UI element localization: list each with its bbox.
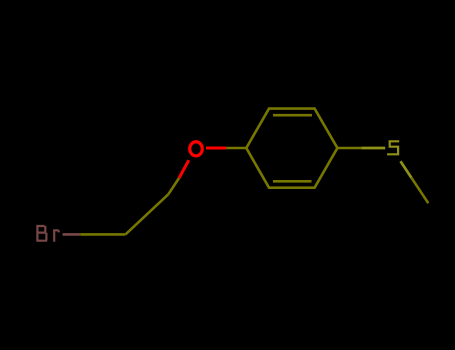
bond O to C3, oxygen half (red) xyxy=(179,160,189,178)
bond S to methyl, sulfur half (bright) xyxy=(401,161,412,178)
bond ring to S, sulfur half (bright) xyxy=(361,147,385,150)
aromatic inner line top xyxy=(273,114,312,117)
bond C1 to Br, carbon half xyxy=(80,233,125,236)
bond S to methyl, carbon half xyxy=(411,178,428,204)
atom Br letter B xyxy=(36,225,47,242)
bond C3 to C1 xyxy=(126,194,169,234)
atom S (sulfur) xyxy=(387,141,399,154)
bond O to ring, oxygen half (red) xyxy=(206,147,226,150)
benzene ring xyxy=(246,109,337,188)
bond O to C3, carbon half xyxy=(168,178,179,194)
atom O (oxygen) xyxy=(190,142,203,156)
bond O to ring, carbon half xyxy=(226,147,246,150)
atom Br letter r xyxy=(53,229,59,241)
bond ring to S, carbon half xyxy=(337,147,361,150)
aromatic inner line bottom xyxy=(273,180,312,183)
bond C1 to Br, bromine half (purple) xyxy=(63,233,81,236)
